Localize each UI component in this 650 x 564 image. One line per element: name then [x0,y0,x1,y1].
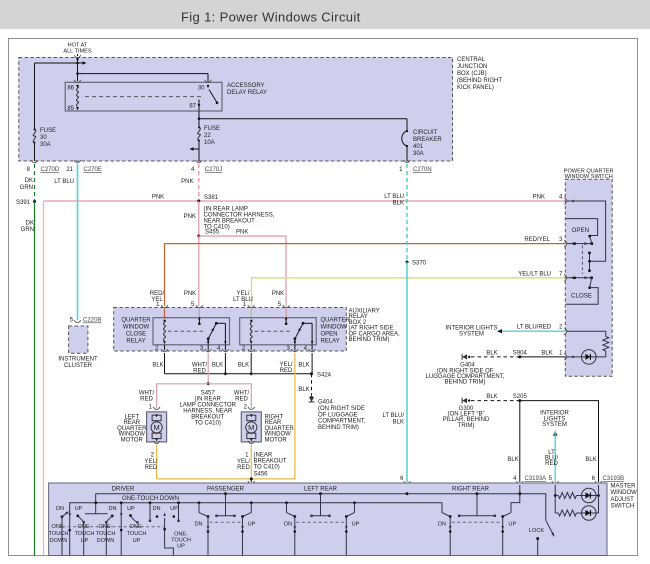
svg-text:30: 30 [198,86,205,92]
svg-text:C3193A: C3193A [525,476,547,482]
mechanical link (dashed) [581,246,583,275]
svg-text:DOWN: DOWN [97,538,115,544]
wire BLK S205 right to master switch pin 6 [520,401,599,482]
fuse 30 30A [34,63,36,129]
svg-text:BLK: BLK [507,457,518,463]
central junction box (CJB) [19,58,453,162]
svg-text:PNK: PNK [533,195,545,201]
svg-text:TOUCH: TOUCH [127,531,147,537]
ground G404 (right side of luggage compartment) [468,356,470,358]
svg-text:UP: UP [81,538,89,544]
svg-text:MOTOR: MOTOR [265,437,288,443]
svg-text:INSTRUMENT: INSTRUMENT [58,357,98,363]
wire PNK from C270J to S381 [198,164,200,200]
svg-text:QUARTER: QUARTER [121,318,151,324]
svg-text:QUARTER: QUARTER [321,318,351,324]
open switch arm [590,236,592,244]
svg-text:UP: UP [248,522,256,528]
svg-text:BEHIND TRIM): BEHIND TRIM) [349,337,390,343]
svg-text:401: 401 [413,144,424,150]
svg-text:TOUCH: TOUCH [49,531,69,537]
svg-text:LT BLU/RED: LT BLU/RED [517,325,552,331]
svg-text:CLOSE: CLOSE [126,332,146,338]
wire BLK close relay pin2 to ground bus [164,353,166,374]
svg-text:DRIVER: DRIVER [112,486,135,492]
svg-text:ONE-TOUCH DOWN: ONE-TOUCH DOWN [122,496,179,502]
svg-text:RIGHT REAR: RIGHT REAR [452,486,490,492]
svg-text:PNK: PNK [236,230,248,236]
svg-text:86: 86 [67,86,74,92]
svg-text:1: 1 [245,453,249,459]
svg-text:RELAY: RELAY [321,339,340,345]
svg-text:SWITCH: SWITCH [611,504,635,510]
svg-text:BEHIND TRIM): BEHIND TRIM) [445,380,486,386]
svg-text:BREAKER: BREAKER [413,137,442,143]
switch illumination LED [582,350,597,365]
svg-text:S456: S456 [254,472,269,478]
instrument cluster [69,326,88,353]
svg-text:BLK: BLK [585,457,596,463]
svg-text:C270J: C270J [205,167,222,173]
ground G404 (luggage compartment) [310,396,312,398]
svg-text:PASSENGER: PASSENGER [207,486,245,492]
svg-text:DN: DN [284,522,292,528]
svg-text:BLK: BLK [298,363,309,369]
svg-text:CENTRAL: CENTRAL [457,57,486,63]
svg-text:UP: UP [508,522,516,528]
svg-text:RELAY: RELAY [126,339,145,345]
switch pin 1 [564,354,567,361]
svg-text:CLOSE: CLOSE [571,292,592,299]
ground G300 (left B pillar) [468,399,470,401]
wire LT BLU/BLK from C270N to S370 [406,164,408,262]
relay coil (pins 86/85) [74,80,81,83]
black ground bus to S424 [165,373,312,375]
node S205 [518,399,521,402]
wire YEL/LT BLU from switch pin 7 to open relay pin 1 [252,278,566,306]
svg-text:DN: DN [194,522,202,528]
wire BLK S904 to G404 [471,356,520,358]
wire BLK S424 to G404 [311,374,313,396]
wire: pin 4 feed inside switch [567,201,606,261]
svg-text:DN: DN [438,522,446,528]
svg-text:DOWN: DOWN [50,538,68,544]
svg-text:3: 3 [559,237,563,243]
svg-text:5: 5 [70,318,74,324]
svg-text:OPEN: OPEN [321,332,338,338]
svg-text:6: 6 [592,476,596,482]
wire BLK open relay pin4 [311,353,313,374]
wire S456 into master switch [250,479,252,482]
driver one-touch-up output with jog [165,518,174,556]
svg-text:S391: S391 [16,200,31,206]
svg-text:S205: S205 [513,394,528,400]
accessory delay relay [65,82,222,111]
wire LT BLU from C270E to instrument cluster [77,164,79,320]
svg-text:FUSE: FUSE [40,128,56,134]
svg-text:C270E: C270E [84,167,102,173]
illumination LED 2 [582,506,597,521]
svg-text:C270N: C270N [413,167,432,173]
passenger window switch [225,494,227,516]
connector C270E pin 21 [74,160,81,163]
svg-text:TOUCH: TOUCH [96,531,116,537]
wire DK GRN below S391 [34,202,36,556]
svg-text:BLK: BLK [238,363,249,369]
svg-text:PNK: PNK [181,179,193,185]
svg-text:ADJUST: ADJUST [611,497,635,503]
svg-text:OF LUGGAGE: OF LUGGAGE [318,412,358,418]
node S455 [197,235,200,238]
wire BLK S205 down to master switch pin 4 [519,401,521,482]
svg-text:RED: RED [193,369,206,375]
svg-text:S457: S457 [201,391,216,397]
wire YEL/RED right motor down [250,445,252,479]
svg-text:5: 5 [278,302,282,308]
node S381 [197,200,200,203]
svg-text:OPEN: OPEN [572,227,590,234]
switch pin 4 [564,198,567,205]
svg-text:S455: S455 [205,230,220,236]
svg-text:PNK: PNK [184,291,196,297]
wire PNK S455 to open relay pin 5 [199,236,286,306]
svg-text:C220B: C220B [83,318,101,324]
wire BLK pin 1 to S904 [520,356,566,358]
illumination resistor 1 [554,485,556,513]
connector C220B pin 5 [74,320,81,323]
wire DK GRN from C270D [34,164,36,200]
svg-text:LEFT REAR: LEFT REAR [304,486,338,492]
svg-text:UP: UP [170,506,178,512]
svg-text:BLK: BLK [298,387,309,393]
svg-text:BLK: BLK [152,363,163,369]
window feed bus (bus1) [96,494,546,521]
svg-text:30: 30 [40,135,47,141]
node S370 [406,261,409,264]
svg-text:RED: RED [140,397,153,403]
wire PNK S381 to S455 [198,201,200,236]
svg-text:85: 85 [67,106,74,112]
svg-text:TOUCH: TOUCH [75,531,95,537]
wire: pin4 C3193A feed to right-rear UP contact [511,485,520,513]
wire PNK main horizontal run [44,200,566,202]
auxiliary relay box 2 [114,308,347,352]
svg-text:6: 6 [400,476,404,482]
svg-text:GRN: GRN [21,227,34,233]
driver window switch [85,513,108,515]
svg-text:CLUSTER: CLUSTER [64,363,93,369]
svg-text:(ON RIGHT SIDE: (ON RIGHT SIDE [318,406,365,412]
colored pin stubs into relays [164,309,166,318]
svg-text:4: 4 [191,167,195,173]
connector C270D pin 8 [31,160,38,163]
svg-text:BLK: BLK [393,201,404,207]
svg-text:87: 87 [189,104,196,110]
svg-text:4: 4 [559,195,563,201]
svg-text:S381: S381 [204,195,219,201]
header bar [0,0,650,29]
svg-text:UP: UP [127,506,135,512]
svg-text:7: 7 [559,271,563,277]
svg-text:MASTER: MASTER [611,484,637,490]
wire: pin 3 row [567,243,592,245]
svg-text:DK: DK [26,221,34,227]
wire BLK close relay pin4 [224,353,226,374]
connector C270N pin 1 [404,160,411,163]
svg-text:PNK: PNK [152,195,164,201]
svg-text:ONE-: ONE- [130,524,144,530]
driver mechanical link [62,526,165,528]
svg-text:WINDOW: WINDOW [321,325,348,331]
svg-text:WINDOW: WINDOW [611,490,638,496]
svg-text:BOX (CJB): BOX (CJB) [457,71,487,77]
wire LT BLU/RED to interior lights system [498,330,565,332]
svg-text:1: 1 [559,350,563,356]
svg-text:RED: RED [235,397,248,403]
lock switch [546,520,554,536]
wire: battery feed inside CJB [77,58,79,81]
wire LT BLU/BLK S370 to master switch pin 6 [406,262,408,482]
svg-text:PNK: PNK [272,291,284,297]
svg-text:LT BLU: LT BLU [54,179,74,185]
svg-text:M: M [153,423,159,432]
svg-text:UP: UP [352,522,360,528]
svg-text:G404: G404 [318,400,333,406]
circuit breaker 401 30A [199,118,407,120]
wire LT BLU/RED to master switch pin 5 [554,431,556,483]
right rear quarter window motor [248,407,255,410]
wire YEL/RED left motor to S456 bus [156,445,158,479]
node S904 [518,355,521,358]
svg-text:ONE-: ONE- [99,524,113,530]
svg-text:Fig 1: Power Windows Circuit: Fig 1: Power Windows Circuit [181,10,361,25]
node S456 [250,477,253,480]
quarter window close relay [153,318,230,345]
relay switch (pins 30/87) [205,80,212,83]
svg-text:2: 2 [151,453,155,459]
svg-text:22: 22 [204,133,211,139]
svg-text:RED: RED [145,465,158,471]
svg-text:8: 8 [27,167,31,173]
svg-text:10A: 10A [204,140,215,146]
wire RED/YEL from switch pin 3 to close relay pin 1 [165,244,566,306]
svg-text:S904: S904 [513,350,528,356]
illumination resistor 2 [555,512,558,514]
node S424 [310,372,313,375]
svg-text:C270D: C270D [41,167,60,173]
switch illumination: pin 2 to resistor [567,331,606,336]
svg-text:5: 5 [191,302,195,308]
svg-text:ALL TIMES: ALL TIMES [63,49,92,55]
svg-text:21: 21 [66,167,73,173]
svg-text:LOCK: LOCK [529,528,545,534]
CLOSE contact tab [566,288,598,305]
svg-text:BLK: BLK [212,363,223,369]
svg-text:30A: 30A [413,151,424,157]
wire BLK S205 to G300 [471,400,520,402]
svg-text:CIRCUIT: CIRCUIT [413,130,438,136]
left rear window switch [320,494,322,516]
illumination LED 1 [582,488,597,503]
svg-text:(BEHIND RIGHT: (BEHIND RIGHT [457,78,502,84]
svg-text:S370: S370 [412,261,427,267]
fuse 22 10A [198,111,200,127]
svg-text:C3193B: C3193B [603,476,625,482]
svg-text:BLK: BLK [486,394,497,400]
wire WHT/RED close relay pin3 to S457 [207,353,209,384]
OPEN contact tab [566,219,598,236]
svg-text:LT BLU/: LT BLU/ [383,413,405,419]
svg-text:UP: UP [133,538,141,544]
svg-text:KICK PANEL): KICK PANEL) [457,85,494,91]
one-touch bus (bus2) [70,503,442,513]
svg-text:WINDOW: WINDOW [123,325,150,331]
switch pin 3 [564,240,567,247]
right rear window switch [476,494,478,516]
svg-text:M: M [248,423,254,432]
svg-text:1: 1 [399,167,403,173]
svg-text:LT BLU: LT BLU [384,194,404,200]
svg-text:TO C410): TO C410) [195,421,221,427]
svg-text:YEL/LT BLU: YEL/LT BLU [518,271,551,277]
svg-text:TO C410): TO C410) [254,465,280,471]
wire WHT/RED S457 to both motors [157,384,252,408]
wire: pin 7 row [567,277,592,279]
svg-text:DN: DN [152,506,160,512]
svg-text:1: 1 [149,405,153,411]
svg-text:RED/YEL: RED/YEL [524,237,550,243]
svg-text:BEHIND TRIM): BEHIND TRIM) [318,425,359,431]
connector C270J pin 4 [195,160,202,163]
svg-text:ACCESSORY: ACCESSORY [227,83,265,89]
quarter window open relay [240,318,317,345]
switch pin 2 [564,328,567,335]
svg-text:JUNCTION: JUNCTION [457,64,487,70]
node S391 [33,200,36,203]
left rear quarter window motor [153,407,160,410]
svg-text:RED: RED [237,465,250,471]
svg-text:MOTOR: MOTOR [121,437,144,443]
svg-text:UP: UP [177,544,185,550]
svg-text:30A: 30A [40,142,51,148]
svg-text:FUSE: FUSE [204,126,220,132]
node S457 [207,382,210,385]
svg-text:RED: RED [545,461,558,467]
svg-text:DN: DN [108,506,116,512]
svg-text:SYSTEM: SYSTEM [459,332,484,338]
wire BLK open relay pin2 [250,353,252,374]
svg-text:2: 2 [559,325,563,331]
svg-text:2: 2 [244,405,248,411]
svg-text:BLK: BLK [393,420,404,426]
svg-text:PNK: PNK [184,214,196,220]
wire PNK S455 to close relay pin 5 [198,236,200,306]
master window adjust switch box [49,483,607,556]
switch pin 7 [564,274,567,281]
svg-text:RED: RED [280,368,293,374]
wire YEL/RED bus to open relay pin 3 [157,353,295,479]
svg-text:GRN: GRN [20,185,33,191]
driver one-touch contacts [120,503,122,556]
svg-text:S424: S424 [317,372,332,378]
svg-text:COMPARTMENT,: COMPARTMENT, [318,419,366,425]
svg-text:BLK: BLK [541,350,552,356]
wire PNK left vertical to master switch area [43,201,45,556]
svg-text:DK: DK [25,178,33,184]
svg-text:TRIM): TRIM) [458,423,475,429]
svg-text:BLK: BLK [486,350,497,356]
svg-text:SYSTEM: SYSTEM [542,422,567,428]
svg-text:DN: DN [56,506,64,512]
svg-text:UP: UP [75,506,83,512]
driver one-touch-down switch [68,513,71,516]
close switch arm [590,278,592,288]
svg-text:DELAY RELAY: DELAY RELAY [227,90,267,96]
